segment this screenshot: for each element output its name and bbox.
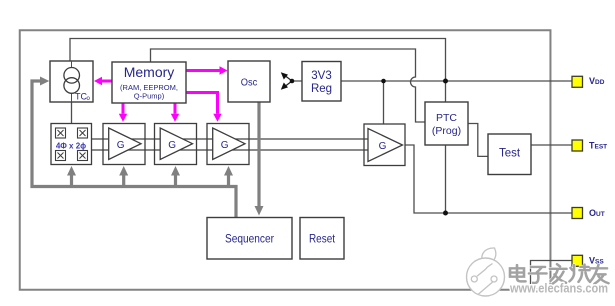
svg-text:Q-Pump): Q-Pump): [134, 92, 165, 101]
amplifier G3: [207, 124, 249, 165]
pin VDD: [572, 76, 605, 87]
wire: Test to TEST pin: [531, 144, 572, 146]
junction dot VDD/G4: [381, 79, 386, 84]
amplifier G4: [364, 124, 405, 166]
wire: PTC bottom to OUT rail: [445, 145, 447, 213]
block Sequencer: [207, 218, 292, 260]
svg-text:G: G: [379, 141, 387, 152]
block PTC (Prog): [425, 102, 468, 145]
junction dot OUT/PTC: [443, 211, 448, 216]
pin TEST: [572, 140, 607, 151]
wire: VDD rail drop to amplifier G4: [383, 81, 385, 124]
thick bus: sequencer control (left vertical, bottom horizontal, riser): [32, 81, 236, 217]
svg-text:Osc: Osc: [241, 77, 258, 89]
bias fork symbol: [281, 72, 295, 89]
amplifier G2: [155, 124, 197, 165]
magenta arrow: Memory to G3 (bent): [186, 93, 218, 114]
arrow into TC: [40, 77, 49, 86]
svg-text:G: G: [221, 140, 229, 151]
block TC (temperature sensor): [50, 61, 93, 102]
pin VSS: [572, 255, 604, 266]
chip boundary box: [20, 30, 551, 290]
svg-text:3V3: 3V3: [311, 70, 331, 82]
thick wire: Osc to Sequencer: [257, 102, 260, 206]
wire: VDD rail from bias fork to VDD pin: [293, 80, 572, 82]
magenta arrow: Memory to Osc: [186, 69, 220, 72]
block chopper 4phi x 2phi: [51, 124, 92, 165]
wire: TC top rail to PTC top: [70, 39, 446, 103]
watermark chinese text (stylized strokes): [510, 264, 609, 284]
svg-text:G: G: [117, 140, 125, 151]
bus riser to G3: [227, 175, 230, 187]
junction dot VDD/PTC: [443, 79, 448, 84]
block 3V3 Reg: [302, 62, 341, 102]
bus riser to G2: [174, 175, 177, 187]
svg-text:Memory: Memory: [124, 64, 175, 80]
svg-text:4Φ x 2ϕ: 4Φ x 2ϕ: [56, 142, 86, 151]
wire: signal pair upper line: [92, 138, 369, 140]
magenta arrow: Memory to TC: [102, 80, 112, 83]
svg-text:Test: Test: [499, 148, 521, 160]
svg-text:G: G: [168, 140, 176, 151]
block Reset: [300, 218, 344, 260]
wire: PTC right to Test: [468, 124, 488, 157]
svg-text:Reset: Reset: [309, 234, 336, 246]
block Memory: [112, 62, 186, 103]
wire: G4 output to OUT pin: [405, 145, 572, 213]
wire: signal pair lower line: [92, 149, 369, 151]
svg-text:Reg: Reg: [311, 83, 332, 95]
bus riser to G1: [122, 175, 125, 187]
watermark logo circle: [467, 248, 505, 296]
wire: TC bottom to chopper block: [71, 102, 73, 123]
wire: Memory top rail to PTC left (with hop): [151, 49, 426, 122]
block Test: [488, 134, 531, 175]
pin OUT: [572, 208, 605, 219]
bus riser to chopper: [70, 175, 73, 187]
svg-text:(Prog): (Prog): [432, 125, 461, 137]
svg-text:Sequencer: Sequencer: [225, 234, 274, 246]
amplifier G1: [103, 124, 145, 165]
wire: VSS pin to bottom rail: [531, 261, 573, 289]
svg-text:www.elecfans.com: www.elecfans.com: [509, 281, 608, 296]
magenta arrow: Memory to G2: [174, 103, 177, 114]
block Osc: [228, 61, 270, 102]
magenta arrow: Memory to G1: [122, 103, 125, 114]
svg-text:PTC: PTC: [436, 112, 457, 124]
